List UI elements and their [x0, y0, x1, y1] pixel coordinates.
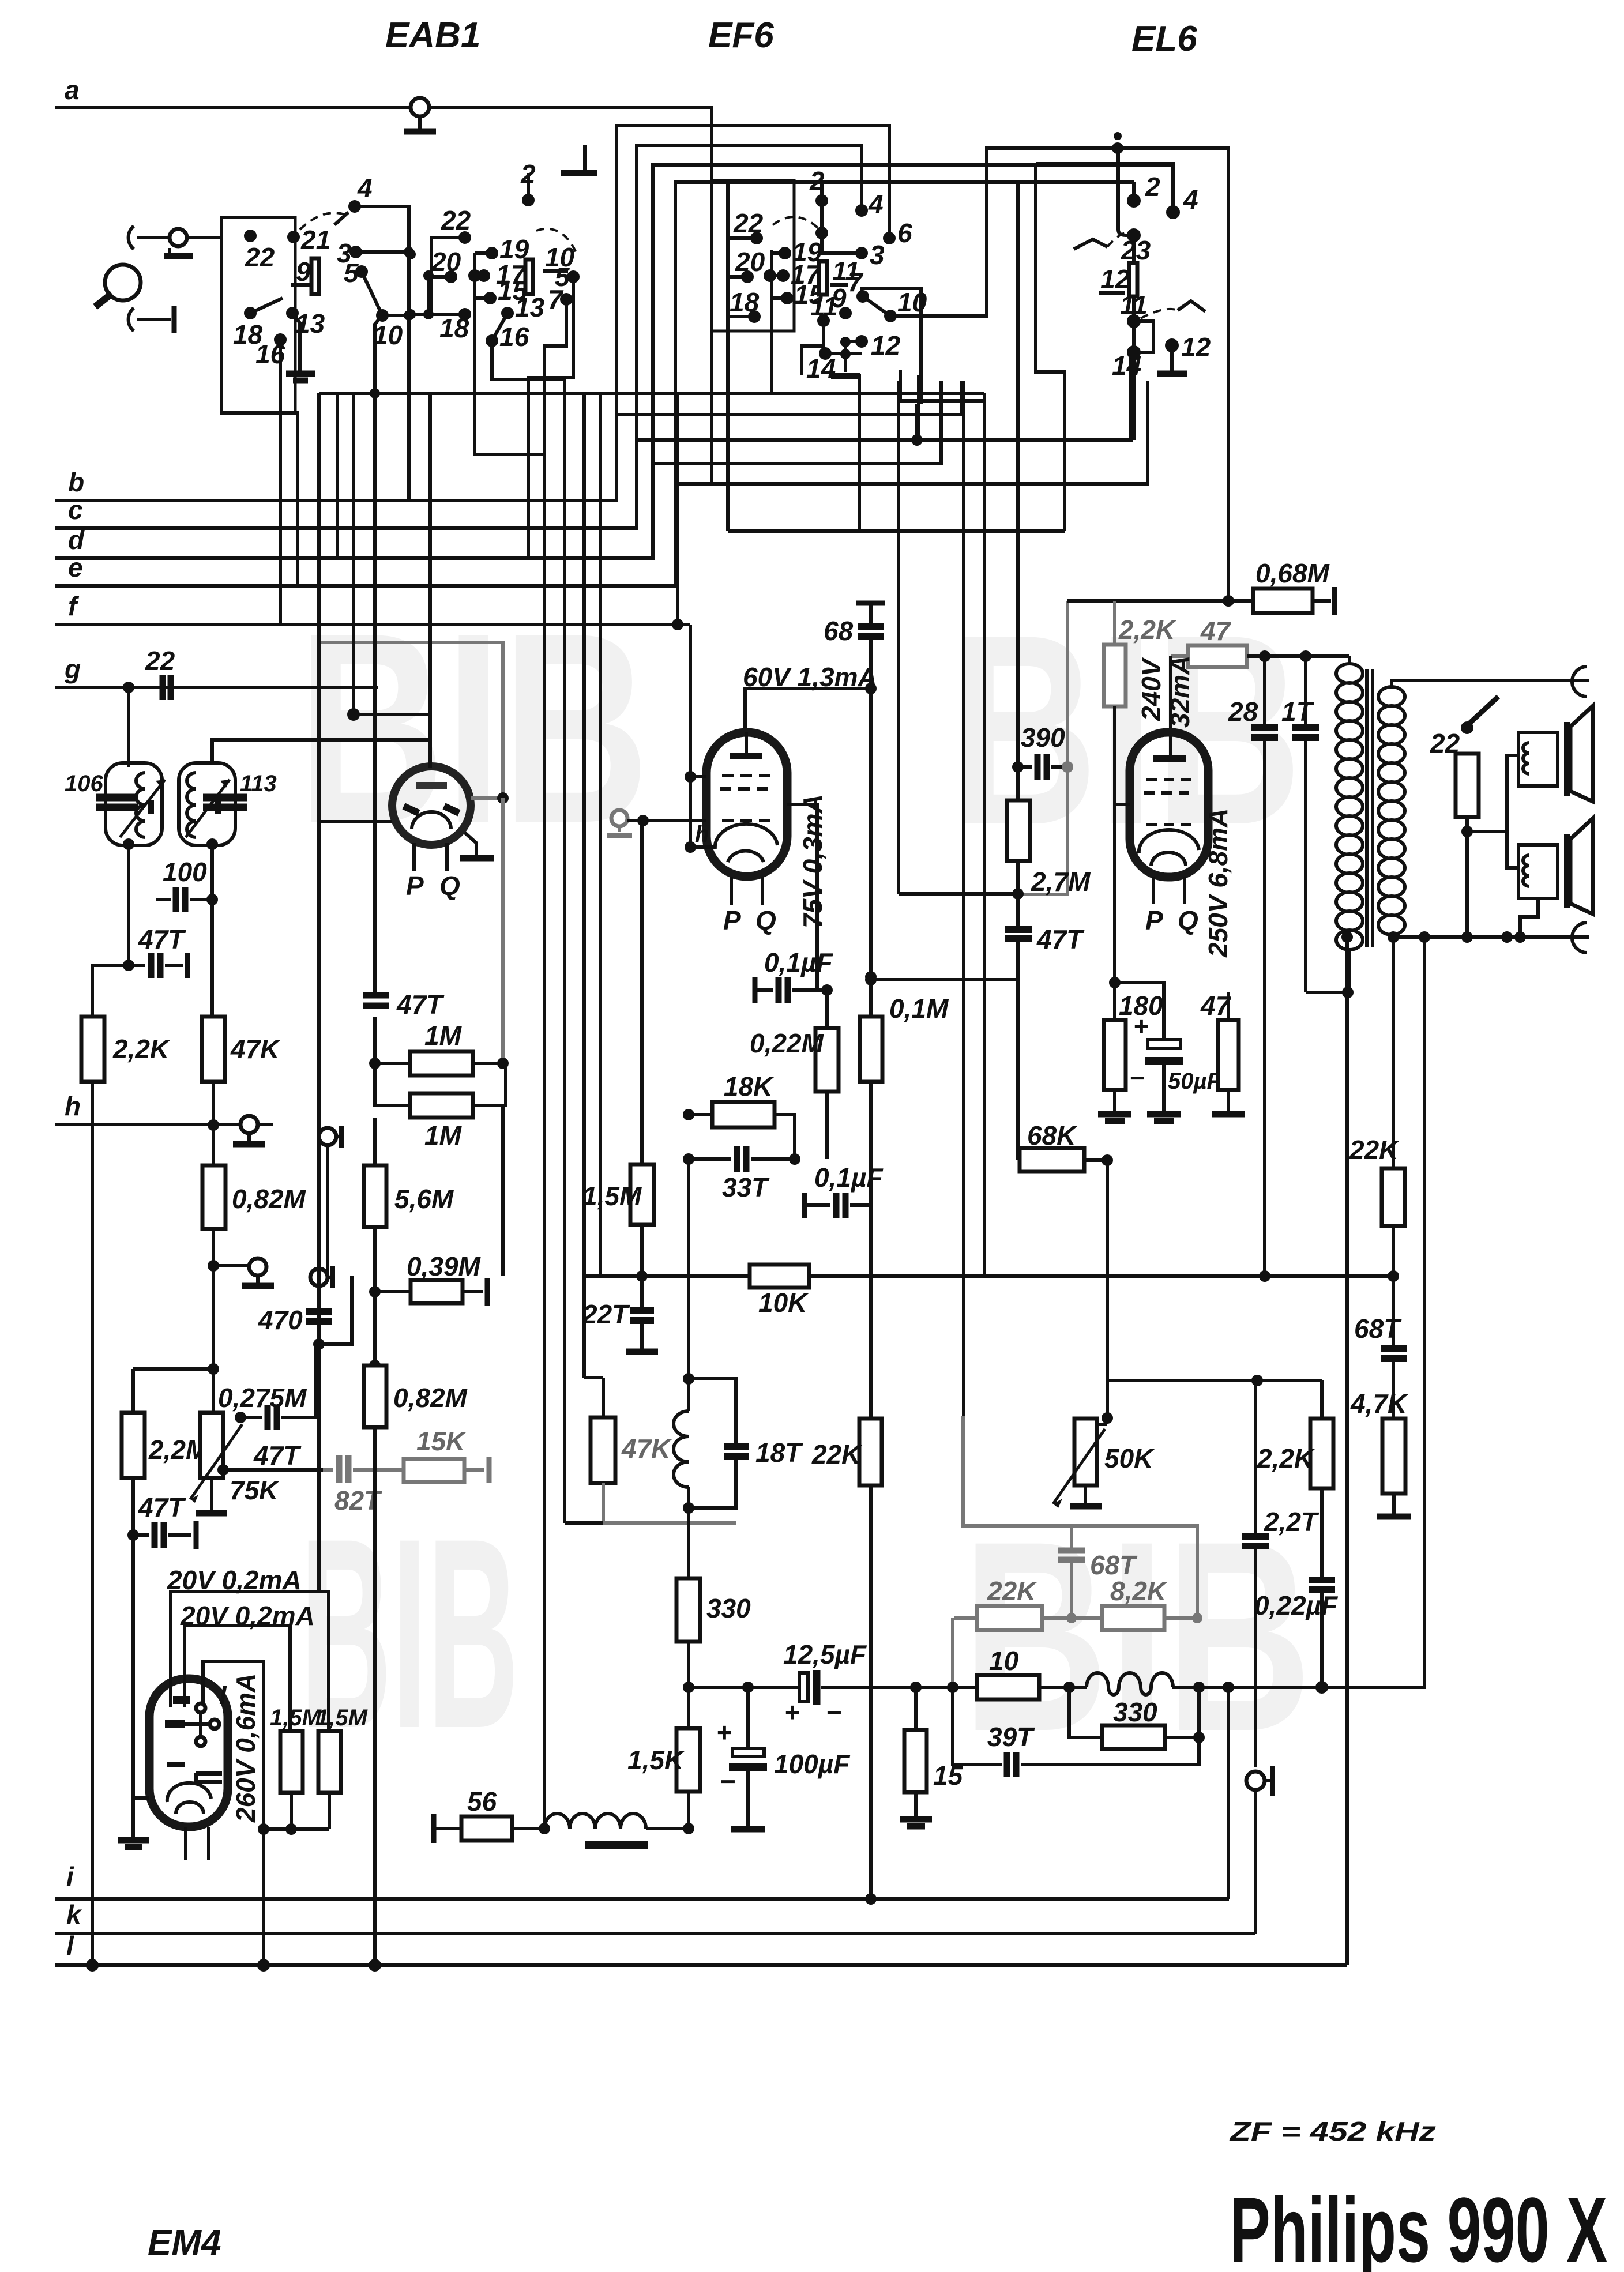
bank2right risers	[890, 148, 1228, 601]
svg-text:12: 12	[871, 330, 901, 360]
ground bar	[1212, 1111, 1245, 1118]
svg-text:5: 5	[344, 258, 359, 288]
anode bar	[730, 753, 762, 759]
symbol stroke	[1270, 1766, 1275, 1796]
resistor 1,5M EF6	[640, 821, 644, 1164]
contact 2b	[522, 194, 535, 206]
resistor 47K left	[202, 1017, 225, 1082]
core bar	[1564, 722, 1570, 796]
junction	[1514, 931, 1526, 943]
cap 0,22uF	[1309, 1580, 1335, 1590]
contact 22b	[458, 231, 471, 244]
resistor 2,2K left	[81, 1017, 104, 1082]
svg-text:P: P	[1145, 905, 1163, 935]
symbol stroke	[330, 1266, 335, 1288]
EM4 tube	[149, 1679, 228, 1827]
svg-text:8,2K: 8,2K	[1110, 1576, 1168, 1606]
wire	[356, 250, 409, 254]
EM4 pins	[186, 1827, 209, 1860]
resistors 1,5M 1,5M	[280, 1731, 303, 1793]
contact 21	[287, 231, 300, 243]
symbol stroke	[339, 1126, 344, 1148]
EF6 area	[565, 182, 1399, 1905]
contact 18b	[458, 308, 471, 321]
wire	[317, 1344, 321, 1419]
wire	[328, 1276, 333, 1279]
grid lead	[1115, 803, 1130, 806]
diode plates inside	[404, 806, 419, 813]
svg-text:14: 14	[1112, 351, 1141, 381]
symbol stroke	[607, 833, 632, 838]
grey network 68T	[963, 1416, 1197, 1618]
terminal with tab upper	[319, 1128, 336, 1145]
resistor body	[1253, 589, 1313, 613]
bus line l	[55, 1963, 1347, 1967]
junction	[1341, 931, 1353, 943]
resistor body	[1456, 754, 1479, 817]
EF6 tube envelope	[706, 732, 787, 877]
grey 22K resistor	[954, 1616, 977, 1620]
riser 1671	[962, 381, 965, 1416]
terminal	[249, 1258, 266, 1276]
wire	[196, 1773, 222, 1782]
svg-text:7: 7	[548, 284, 564, 314]
svg-text:9: 9	[296, 257, 311, 287]
resistor 0,82M	[202, 1165, 225, 1229]
grid terminal grey	[611, 810, 627, 826]
wire	[185, 1626, 290, 1731]
junction	[208, 1119, 219, 1131]
svg-text:e: e	[68, 552, 83, 582]
right plate lead	[787, 804, 817, 990]
ground bar	[1377, 1514, 1411, 1520]
contact 2c	[815, 194, 828, 207]
svg-text:18: 18	[730, 287, 760, 317]
wire left down	[92, 965, 129, 1017]
contact 13	[286, 307, 299, 319]
svg-text:18K: 18K	[724, 1071, 774, 1101]
contact 15	[484, 292, 497, 304]
junction dots on bus l	[86, 1959, 99, 1972]
bus line f	[55, 623, 690, 626]
junction	[1461, 826, 1473, 837]
symbol stroke	[215, 800, 221, 814]
wire	[131, 1478, 135, 1535]
resistor 330	[676, 1578, 700, 1642]
contact 18	[244, 307, 257, 319]
box around right bank2	[712, 180, 794, 331]
junction	[1193, 1682, 1205, 1693]
transformer and speakers	[1306, 656, 1593, 1965]
svg-text:+: +	[1133, 1011, 1149, 1041]
junction	[821, 984, 833, 996]
resistor 22K mid	[859, 1419, 882, 1485]
antenna terminal on bus a	[411, 98, 429, 116]
secondary coil	[1390, 680, 1393, 687]
cap 1T	[1304, 656, 1307, 726]
wire	[512, 1827, 544, 1830]
grids dashed	[722, 774, 773, 777]
junction	[865, 683, 877, 694]
symbol stroke	[1292, 728, 1319, 738]
wire	[131, 1535, 135, 1798]
dashed arc 21-4	[300, 213, 345, 230]
junction	[777, 269, 790, 282]
resistor body	[750, 1265, 809, 1288]
wire	[1134, 321, 1153, 352]
wire	[291, 1793, 329, 1829]
speaker 1	[1467, 755, 1518, 832]
coil inside 113	[187, 773, 196, 837]
trimmer 9	[311, 258, 319, 294]
EL6 area	[1067, 558, 1349, 1282]
ground bar	[1098, 1111, 1131, 1118]
wire	[334, 212, 348, 225]
resistor 0,68M	[1223, 595, 1234, 607]
chain 390 / 2,7M / 47T	[1016, 182, 1020, 800]
junction	[865, 974, 877, 985]
contact 17	[468, 269, 481, 282]
top switch section	[95, 98, 984, 1829]
svg-text:g: g	[64, 654, 81, 684]
main bottom wire 12,5uF line	[687, 1686, 802, 1689]
symbol stroke	[1037, 754, 1047, 780]
wire	[1507, 832, 1518, 868]
symbol stroke	[779, 977, 788, 1003]
ground bar	[1157, 371, 1187, 377]
box right bank2 lower	[862, 288, 921, 404]
junction small dots	[840, 337, 851, 347]
terminal	[196, 1703, 205, 1713]
symbol stroke	[858, 626, 884, 636]
svg-text:2,2K: 2,2K	[1118, 615, 1176, 645]
wire	[869, 603, 873, 624]
lever 7-10	[863, 296, 890, 316]
ground bar	[1154, 1118, 1174, 1124]
wire	[1139, 830, 1199, 853]
wire	[1151, 852, 1186, 866]
resistor 0,82M second	[369, 1360, 381, 1371]
pins P Q EF6	[731, 877, 762, 905]
junction	[1012, 761, 1024, 773]
wire	[213, 1264, 249, 1267]
switch box 1	[221, 217, 295, 413]
wire	[603, 1483, 736, 1523]
junction	[685, 841, 696, 853]
wire	[156, 898, 171, 901]
wire down from coil junction	[687, 1508, 690, 1578]
junction	[840, 349, 851, 359]
grid dashes	[722, 819, 773, 822]
ground bar	[164, 253, 193, 259]
grid dashes	[1146, 778, 1191, 781]
resistor body	[1020, 1148, 1084, 1172]
wire	[475, 253, 544, 454]
wire	[728, 851, 764, 862]
wire	[317, 393, 321, 413]
wire	[690, 845, 715, 849]
symbol stroke	[220, 780, 230, 788]
junction	[206, 838, 218, 850]
symbol stroke	[1251, 728, 1278, 738]
bus line a	[55, 107, 712, 483]
switch lever on top line	[1461, 721, 1473, 734]
staircase verticals	[543, 393, 546, 1829]
symbol stroke	[1053, 1429, 1105, 1504]
grey 8,2K resistor	[1102, 1606, 1164, 1630]
contact 18c	[748, 310, 761, 323]
junction	[404, 310, 414, 321]
junction	[1114, 132, 1122, 140]
junction	[370, 388, 380, 398]
contact 7c	[856, 290, 869, 303]
svg-text:0,68M: 0,68M	[1255, 558, 1330, 588]
svg-text:47T: 47T	[253, 1440, 302, 1470]
svg-text:240V: 240V	[1136, 657, 1166, 721]
svg-text:0,1M: 0,1M	[889, 994, 949, 1024]
core bar	[1371, 669, 1374, 947]
contact 20c	[741, 270, 754, 283]
cap 68T right	[1381, 1349, 1407, 1359]
wire	[501, 1105, 505, 1276]
symbol stroke	[163, 675, 171, 700]
svg-text:22K: 22K	[987, 1576, 1037, 1606]
group	[1378, 687, 1405, 935]
svg-text:Q: Q	[755, 905, 776, 935]
wire	[1106, 1160, 1109, 1380]
symbol stroke	[729, 1763, 767, 1771]
junction	[313, 1338, 325, 1350]
svg-text:0,22M: 0,22M	[750, 1028, 825, 1058]
cap 28	[1263, 656, 1266, 726]
symbol stroke	[444, 806, 459, 813]
svg-text:−: −	[720, 1766, 735, 1796]
symbol stroke	[1570, 818, 1593, 914]
wire	[168, 1533, 191, 1537]
symbol stroke	[172, 306, 177, 333]
svg-text:330: 330	[706, 1593, 751, 1623]
svg-text:470: 470	[258, 1305, 303, 1335]
wire	[428, 393, 432, 714]
symbol stroke	[165, 1720, 185, 1728]
junction 23c with dashed arc	[815, 227, 828, 239]
wire	[203, 1661, 264, 1829]
wire	[563, 379, 566, 1523]
resistor body	[410, 1051, 473, 1075]
symbol stroke	[339, 1455, 348, 1483]
svg-text:47T: 47T	[1036, 924, 1085, 954]
junction	[1223, 1682, 1234, 1693]
wire	[1171, 654, 1188, 658]
contact 19c	[779, 247, 791, 259]
cap 33T	[689, 1157, 731, 1161]
contact 4	[348, 200, 361, 213]
resistor 15	[904, 1730, 927, 1792]
dashed arc right of 11e	[1141, 309, 1178, 318]
wire	[362, 272, 382, 315]
bottom section	[86, 1118, 694, 1972]
EM4 ground left	[133, 1796, 149, 1800]
wire	[1070, 1526, 1073, 1548]
wire	[869, 636, 873, 977]
wire	[983, 393, 986, 1276]
svg-text:−: −	[1129, 1063, 1145, 1093]
group	[712, 148, 1228, 1416]
resistor 47 grey horizontal	[1188, 645, 1247, 667]
svg-text:1T: 1T	[1281, 697, 1315, 727]
wire	[745, 689, 871, 732]
svg-text:1M: 1M	[424, 1120, 463, 1150]
resistor 15K grey	[404, 1459, 464, 1482]
junction and 180 resistor	[1109, 977, 1121, 988]
wire	[1132, 352, 1136, 440]
svg-text:22T: 22T	[582, 1299, 630, 1329]
wire	[1132, 235, 1136, 261]
svg-text:2,2K: 2,2K	[112, 1034, 171, 1064]
junction	[497, 792, 509, 804]
right column	[687, 1135, 1421, 1934]
wire	[137, 318, 171, 321]
symbol stroke	[363, 995, 389, 1006]
wire	[675, 182, 1134, 484]
junction	[1388, 1270, 1399, 1282]
svg-text:20: 20	[735, 247, 765, 277]
wire	[137, 236, 170, 239]
wire	[1084, 1158, 1107, 1162]
svg-text:1,5K: 1,5K	[627, 1745, 685, 1775]
symbol stroke	[151, 953, 160, 978]
svg-text:16: 16	[499, 322, 529, 352]
ground bar	[404, 129, 436, 135]
wire	[185, 1722, 215, 1726]
wire	[1069, 1687, 1102, 1737]
primary bottom lead	[1306, 950, 1349, 992]
left junction dots	[685, 771, 696, 783]
svg-text:0,1µF: 0,1µF	[814, 1163, 884, 1193]
element	[1518, 732, 1558, 786]
switch bank 2 left box	[431, 238, 465, 314]
symbol stroke	[1058, 1551, 1085, 1560]
wire	[1170, 345, 1174, 371]
wire	[869, 1485, 873, 1899]
junction	[369, 1959, 381, 1972]
svg-text:EF6: EF6	[708, 16, 774, 55]
svg-text:BIB: BIB	[298, 577, 649, 879]
svg-text:47T: 47T	[396, 990, 445, 1020]
ground bar	[1105, 1118, 1125, 1124]
junction	[1112, 142, 1123, 154]
resistor 2,2M	[131, 1369, 135, 1413]
wire	[871, 939, 1018, 980]
wire	[1018, 601, 1067, 894]
bus line d	[55, 381, 941, 558]
symbol stroke	[167, 1762, 185, 1767]
junction	[478, 269, 490, 282]
resistor body	[712, 1102, 775, 1127]
coil 330 parallel resistor	[1087, 1673, 1173, 1695]
svg-text:18T: 18T	[755, 1438, 803, 1468]
wire	[1113, 706, 1116, 983]
ground bar	[900, 1816, 932, 1823]
wire	[262, 1829, 265, 1965]
wire	[602, 1378, 605, 1417]
trimmer bar inside 106	[148, 800, 154, 814]
wire	[1523, 855, 1529, 886]
resistor 1,5K	[676, 1728, 700, 1792]
cap 39T	[953, 1687, 1002, 1765]
junction	[539, 1823, 550, 1834]
wire	[1227, 1687, 1230, 1899]
cap 12,5uF	[799, 1673, 808, 1702]
bus line k	[55, 1932, 1255, 1935]
junction	[672, 619, 683, 630]
resistor 47K grey label	[584, 1376, 603, 1379]
wire	[653, 165, 1173, 464]
group	[1036, 132, 1211, 440]
wire	[527, 173, 530, 200]
junction	[497, 1058, 509, 1069]
symbol stroke	[1005, 930, 1032, 939]
wire	[1523, 743, 1529, 774]
symbol stroke	[1153, 755, 1186, 762]
wire	[354, 714, 430, 768]
resistor 47 right	[1218, 1020, 1239, 1090]
wire	[565, 1521, 603, 1525]
bank1 wiring	[355, 206, 409, 501]
wire	[674, 1411, 689, 1487]
resistor 2,2K grey	[1104, 645, 1126, 706]
coil inside 106	[136, 773, 145, 837]
headphone jack arcs	[1572, 667, 1587, 697]
junction	[257, 1959, 270, 1972]
cap 106 plates	[96, 798, 138, 807]
symbol stroke	[95, 294, 112, 307]
cap 47T pot wiper	[240, 1416, 262, 1419]
dashed arc bank2	[536, 229, 577, 254]
junction	[404, 247, 414, 257]
svg-text:47T: 47T	[138, 1492, 186, 1522]
wire	[1016, 861, 1020, 927]
contact 11d	[817, 314, 830, 327]
wire	[1263, 738, 1266, 1276]
cap 22T	[640, 1276, 644, 1308]
wire 16 down	[279, 340, 282, 625]
symbol stroke	[190, 1424, 242, 1499]
svg-text:68K: 68K	[1027, 1120, 1077, 1150]
svg-text:15K: 15K	[416, 1426, 467, 1456]
resistor body	[122, 1413, 145, 1478]
tube EAB1 envelope	[392, 766, 471, 845]
wire	[317, 1286, 321, 1344]
wire h2213 and resistor 10K	[636, 1270, 648, 1282]
svg-text:4: 4	[868, 189, 884, 219]
svg-text:260V 0,6mA: 260V 0,6mA	[231, 1673, 261, 1823]
wire	[1036, 165, 1065, 531]
junction	[1259, 1270, 1270, 1282]
wire	[809, 1274, 1393, 1278]
ground bar	[125, 1844, 142, 1850]
resistor body	[591, 1417, 615, 1483]
junction	[683, 1153, 694, 1165]
wire	[1051, 765, 1067, 769]
wire	[899, 892, 1018, 896]
antenna input jack upper	[129, 226, 134, 249]
symbol stroke	[120, 780, 165, 837]
wire	[292, 313, 300, 371]
wire	[1320, 1380, 1324, 1419]
wire	[1254, 1790, 1257, 1934]
wire	[291, 283, 310, 287]
